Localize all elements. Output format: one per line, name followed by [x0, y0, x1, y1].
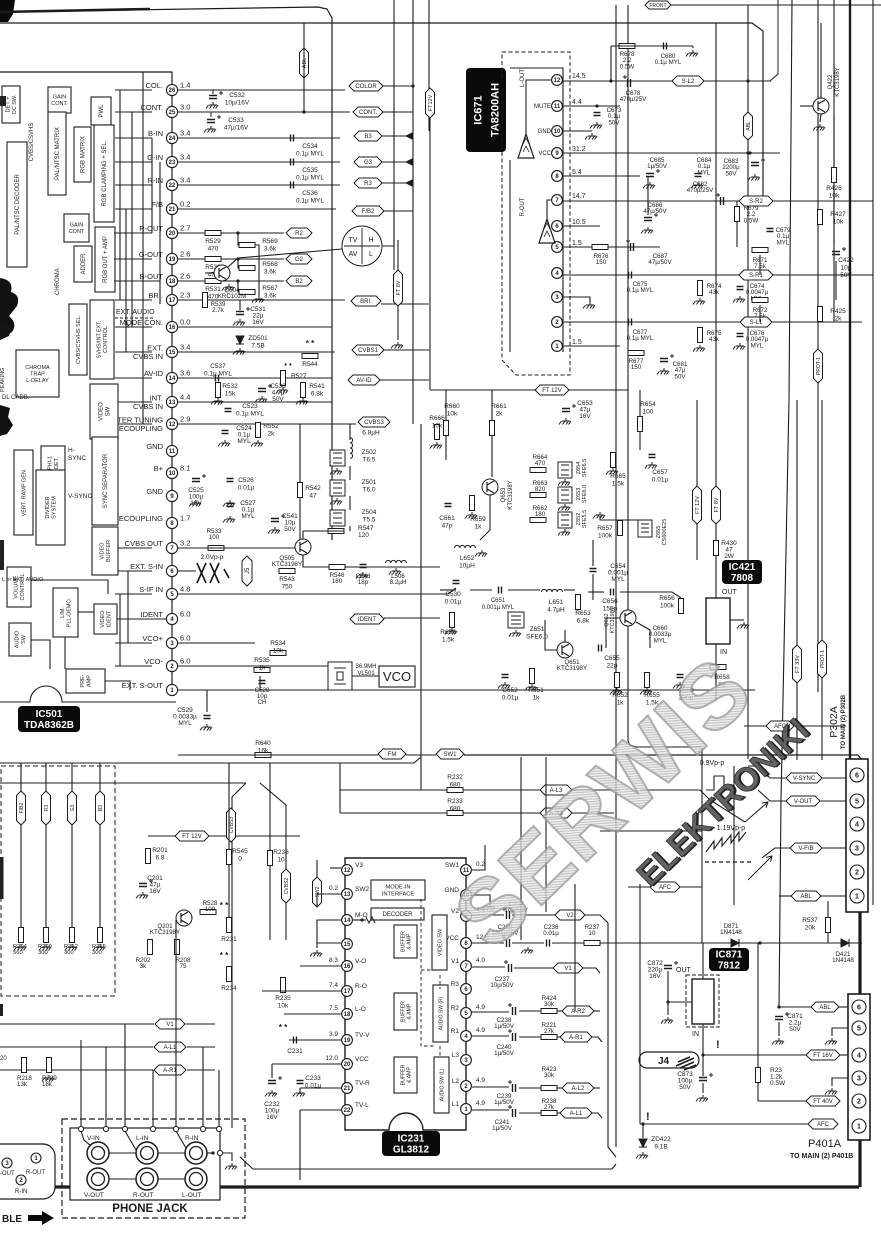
- net label A-R1 bl: [154, 1065, 186, 1075]
- wire IC871 in dn: [702, 1024, 704, 1055]
- zener ZD422: [639, 1139, 647, 1147]
- ground P401 pin3: [825, 1088, 837, 1095]
- resistor R202: [148, 940, 153, 955]
- wire left col h: [127, 571, 129, 643]
- block AUDIO SW: [9, 623, 31, 656]
- wire lower bus 783: [0, 782, 246, 784]
- svg-text:16k: 16k: [258, 748, 269, 755]
- wire bottom return bend: [612, 1164, 616, 1169]
- wire Z cluster: [349, 424, 351, 440]
- svg-text:V-SYNC: V-SYNC: [793, 776, 816, 782]
- wire pin20 stub: [272, 1063, 341, 1065]
- connector P302A box: [846, 759, 868, 912]
- resistor R535: [254, 668, 270, 673]
- block DIVIDER SYSTEM: [36, 470, 65, 545]
- svg-text:0.01µ: 0.01µ: [543, 930, 559, 937]
- wire C872 gnd stub: [667, 1002, 669, 1015]
- dashed box bottom-left: [1, 766, 115, 996]
- resistor R221: [541, 1035, 557, 1040]
- svg-text:SW: SW: [106, 406, 112, 416]
- svg-text:SYSTEM: SYSTEM: [52, 496, 58, 519]
- wire bottom return: [253, 1168, 612, 1170]
- IC501 pin 18: [166, 275, 177, 286]
- resistor R545: [227, 850, 232, 865]
- svg-text:1.4: 1.4: [180, 81, 190, 90]
- svg-text:SFE6.5: SFE6.5: [582, 459, 588, 477]
- switch TV/AV: [342, 226, 382, 266]
- wire pin14 link: [353, 919, 366, 921]
- net label V1 bl: [155, 1019, 185, 1029]
- transistor Q504: [214, 265, 230, 281]
- svg-text:1.5k: 1.5k: [442, 637, 455, 644]
- svg-text:Z501: Z501: [362, 479, 377, 486]
- block VERT. RAMP GEN.: [14, 450, 33, 535]
- svg-text:PHONE JACK: PHONE JACK: [112, 1203, 188, 1215]
- svg-text:B3: B3: [98, 805, 104, 811]
- wire pin 15 left stub: [115, 351, 152, 353]
- regulator IC871 body: [692, 979, 714, 1024]
- wire bus x628: [627, 5, 629, 741]
- svg-text:19: 19: [169, 257, 176, 263]
- svg-text:V-F/B: V-F/B: [798, 846, 813, 852]
- IC501 pin 17: [166, 294, 177, 305]
- wire FT12V mid row2: [569, 389, 628, 391]
- net label ABL p401: [811, 1002, 839, 1012]
- wire pin21 stub: [300, 1087, 341, 1089]
- svg-text:R653: R653: [575, 610, 591, 617]
- ground R665: [606, 468, 618, 475]
- svg-text:470µ/25V: 470µ/25V: [620, 96, 647, 103]
- svg-text:MYL: MYL: [241, 513, 255, 520]
- ground R674: [693, 298, 705, 305]
- wire bus763 bend: [414, 757, 421, 763]
- resistor R234: [227, 967, 232, 982]
- wire Q505 emitter: [303, 555, 329, 567]
- svg-text:47µ/16V: 47µ/16V: [224, 125, 249, 132]
- scan artifact top-left corner blob: [0, 0, 15, 22]
- net label PROT-1 mid: [818, 640, 827, 678]
- svg-text:TRAP: TRAP: [30, 371, 45, 377]
- svg-text:R547: R547: [358, 525, 374, 532]
- wire pin 12 left stub: [115, 423, 152, 425]
- svg-text:R529: R529: [205, 238, 221, 245]
- svg-text:L-OUT: L-OUT: [520, 69, 526, 87]
- net label BRI.: [351, 296, 381, 306]
- svg-text:BLE: BLE: [2, 1214, 22, 1225]
- wire pin 19 row: [178, 258, 284, 260]
- svg-text:TDA8362B: TDA8362B: [24, 720, 74, 731]
- svg-text:TV-V: TV-V: [355, 1032, 370, 1039]
- IC501 pin 12: [166, 418, 177, 429]
- ground P401 pin5: [825, 1038, 837, 1045]
- net label FT 12V mid: [535, 385, 569, 395]
- svg-text:680: 680: [450, 782, 461, 789]
- wire ABL up: [303, 23, 305, 48]
- svg-text:TV: TV: [349, 237, 358, 244]
- svg-text:2k: 2k: [496, 411, 504, 418]
- ground R532: [211, 398, 223, 405]
- wire Q422 base: [800, 105, 813, 107]
- IC231 pin 1R: [461, 1104, 472, 1115]
- ground C652: [498, 682, 510, 689]
- wire bus x850 thick: [849, 0, 851, 759]
- IC231 pin 2R: [461, 1081, 472, 1092]
- svg-text:VIDEO: VIDEO: [100, 610, 106, 628]
- wire pin 20 row: [178, 232, 284, 234]
- svg-text:0.1µ MYL: 0.1µ MYL: [655, 59, 682, 66]
- IC IC871 7812 label: [709, 948, 749, 971]
- svg-text:CVBS IN: CVBS IN: [133, 402, 163, 411]
- svg-text:TA8200AH: TA8200AH: [489, 83, 501, 137]
- wire pin2 row2: [519, 1087, 541, 1089]
- ground R651: [525, 684, 537, 691]
- resistor R423: [541, 1086, 557, 1091]
- ground C653: [559, 418, 571, 425]
- jack R-IN: [185, 1142, 207, 1164]
- block VOLUME CONTROL: [7, 567, 31, 607]
- svg-text:BUFFER: BUFFER: [400, 931, 406, 952]
- wire F/B2 up: [20, 763, 22, 791]
- IC671 pin 3: [552, 292, 563, 303]
- svg-text:R534: R534: [270, 640, 286, 647]
- wire pin5 row: [472, 1011, 509, 1013]
- net label J5: [242, 556, 252, 586]
- wire block link 2: [114, 258, 152, 260]
- IC IC671 TA8200AH label: [466, 68, 506, 152]
- jack pin 81: [78, 1126, 83, 1131]
- net label G3: [354, 157, 382, 167]
- resistor R528: [200, 910, 216, 915]
- svg-text:6: 6: [857, 1005, 861, 1012]
- IC501 pin 23: [166, 156, 177, 167]
- svg-text:R425: R425: [830, 308, 846, 315]
- net label V-F/B: [790, 843, 822, 853]
- wire audio out: [588, 591, 604, 593]
- resistor R675: [698, 328, 703, 343]
- svg-text:IC671: IC671: [472, 95, 484, 124]
- svg-text:IDENT: IDENT: [107, 610, 113, 627]
- svg-text:50V: 50V: [608, 119, 620, 126]
- box phone jack body: [70, 1128, 220, 1200]
- wire R567 link: [238, 281, 239, 292]
- svg-text:1µ/50V: 1µ/50V: [647, 163, 668, 170]
- svg-text:1µ/50V: 1µ/50V: [494, 1050, 515, 1057]
- wire FT12V bl row: [148, 835, 176, 837]
- net label AFC p302: [766, 721, 794, 731]
- svg-text:B2: B2: [295, 279, 303, 285]
- resistor R567: [239, 290, 255, 295]
- svg-text:R545: R545: [232, 848, 248, 855]
- svg-text:10: 10: [277, 857, 285, 864]
- svg-text:DET.: DET.: [54, 457, 60, 469]
- ground pin10: [585, 133, 597, 140]
- capacitor C872: [664, 966, 672, 969]
- net label G3 vert: [68, 791, 77, 825]
- resistor R552: [256, 423, 261, 438]
- svg-text:IC231: IC231: [398, 1134, 425, 1145]
- ground L506: [389, 568, 401, 575]
- wire pin10 gnd: [563, 130, 592, 132]
- wire Q422 up: [820, 23, 822, 98]
- svg-text:R544: R544: [302, 361, 318, 368]
- wire Q651 coll: [564, 630, 566, 642]
- net label V2: [555, 910, 585, 920]
- wire bus x734: [733, 766, 735, 905]
- resistor R658: [710, 665, 726, 670]
- wire pin 17 row: [178, 299, 345, 301]
- svg-text:SFE6.0: SFE6.0: [582, 485, 588, 503]
- svg-text:Z504: Z504: [362, 509, 377, 516]
- capacitor C422: [832, 252, 840, 255]
- watermark ELEKTRONIKI: [629, 710, 818, 894]
- wire pin 2 left stub: [115, 665, 152, 667]
- wire left bus c: [142, 72, 144, 424]
- svg-text:15: 15: [344, 942, 351, 948]
- net label CVBS2 vert: [282, 869, 291, 903]
- P302A pin 4: [850, 817, 864, 831]
- svg-text:MYL: MYL: [178, 720, 192, 727]
- svg-text:B-IN: B-IN: [148, 129, 163, 138]
- wire ZD422 up: [642, 1124, 644, 1138]
- wire jack feed x203: [202, 1047, 204, 1126]
- resistor R656: [679, 599, 684, 614]
- svg-text:4.9: 4.9: [476, 1027, 485, 1034]
- svg-text:ABL: ABL: [819, 1005, 831, 1011]
- svg-text:VIDEO: VIDEO: [100, 542, 106, 560]
- ground Q504: [222, 284, 234, 291]
- wire R430 up: [715, 23, 717, 540]
- wire block link 1: [114, 232, 143, 234]
- svg-text:R657: R657: [597, 525, 613, 532]
- ground R239: [42, 1075, 54, 1082]
- wire pin 22 row: [178, 184, 340, 186]
- block RGB MATRIX: [74, 127, 91, 182]
- svg-text:F/B: F/B: [151, 200, 163, 209]
- block VIDEO SW upper: [90, 384, 118, 439]
- wire pin 26 left stub: [115, 89, 152, 91]
- svg-text:ABL: ABL: [800, 894, 812, 900]
- wire P401 pin5 gnd: [832, 1028, 848, 1036]
- svg-text:1: 1: [855, 894, 859, 901]
- capacitor C543: [360, 565, 367, 568]
- svg-text:0.1µ MYL: 0.1µ MYL: [236, 411, 264, 418]
- ground R567 common: [252, 296, 264, 303]
- wire x340 drop: [339, 763, 341, 813]
- svg-text:2.9: 2.9: [180, 415, 190, 424]
- capacitor C231: [294, 1037, 297, 1044]
- svg-text:GAIN: GAIN: [70, 223, 83, 229]
- ground C543: [356, 572, 368, 579]
- svg-text:2W: 2W: [724, 553, 735, 560]
- svg-text:13: 13: [344, 892, 351, 898]
- connector J4: [639, 1052, 699, 1068]
- capacitor C680: [664, 43, 667, 50]
- ground IC421: [737, 622, 749, 629]
- svg-text:SYNC: SYNC: [68, 455, 86, 462]
- resistor R236: [268, 851, 273, 866]
- wire R671 drop: [759, 255, 761, 275]
- filter Z651: [508, 612, 524, 628]
- diode D421: [841, 939, 849, 947]
- wire FT12V bl row2: [209, 835, 300, 837]
- net label FT8V: [394, 270, 403, 306]
- wire FT12V vcol up: [696, 400, 698, 486]
- svg-text:!: !: [716, 1039, 720, 1051]
- svg-text:OUT: OUT: [676, 967, 692, 974]
- svg-text:IC421: IC421: [729, 562, 756, 573]
- svg-text:2.7: 2.7: [180, 224, 190, 233]
- IC231 pin 12: [342, 865, 353, 876]
- svg-text:SW1: SW1: [443, 752, 457, 758]
- capacitor C234: [507, 911, 510, 919]
- wire A-L1 wrap: [592, 1113, 602, 1118]
- svg-text:BUFFER: BUFFER: [400, 1001, 406, 1022]
- wire pin 23 left stub: [115, 161, 152, 163]
- net label B3: [354, 131, 382, 141]
- capacitor C531: [236, 312, 244, 315]
- svg-text:T6.0: T6.0: [362, 487, 375, 494]
- waveform squiggle S-IN: [197, 563, 229, 583]
- junction J4: [701, 1053, 704, 1056]
- wire R3 to bus: [382, 182, 413, 184]
- svg-text:C657: C657: [652, 469, 668, 476]
- svg-text:BRI.: BRI.: [360, 299, 372, 305]
- resistor R209: [44, 928, 49, 943]
- svg-text:R535: R535: [254, 657, 270, 664]
- net label R2: [286, 228, 312, 238]
- junction ABL-CONT: [302, 110, 305, 113]
- svg-text:A-R1: A-R1: [569, 1035, 583, 1041]
- wire bus x780: [779, 0, 792, 1007]
- capacitor C654: [590, 569, 597, 572]
- IC501 pin 25: [166, 106, 177, 117]
- resistor R659: [470, 496, 475, 511]
- P401A pin 3: [852, 1071, 866, 1085]
- block VIDEO SW 231: [432, 915, 447, 970]
- svg-text:0.1µ MYL: 0.1µ MYL: [296, 198, 324, 205]
- wire LIM down: [64, 637, 66, 669]
- ground Z653: [558, 504, 570, 511]
- capacitor C871: [775, 1017, 783, 1020]
- svg-text:!: !: [646, 1111, 650, 1123]
- resistor R424: [541, 1009, 557, 1014]
- P302A pin 5: [850, 794, 864, 808]
- capacitor C678: [628, 79, 631, 87]
- svg-text:0.1µ MYL: 0.1µ MYL: [204, 371, 232, 378]
- transistor Q422: [813, 98, 829, 114]
- svg-text:R3: R3: [364, 181, 372, 187]
- wire CONT. to bus: [383, 111, 413, 113]
- svg-text:820: 820: [535, 486, 546, 493]
- scan artifact blob left 3: [0, 405, 13, 436]
- svg-text:8.3: 8.3: [329, 957, 338, 964]
- svg-text:TV-R: TV-R: [355, 1080, 370, 1087]
- capacitor C236: [547, 940, 550, 947]
- svg-text:1k: 1k: [475, 524, 483, 531]
- net label G2: [286, 254, 312, 264]
- ground R655: [640, 688, 652, 695]
- wire pin 14 left stub: [115, 377, 152, 379]
- wire vertical bus x394: [393, 0, 395, 270]
- svg-text:* *: * *: [220, 901, 229, 910]
- block PAL/NTSC DECODER: [7, 142, 27, 267]
- junction R569: [236, 231, 239, 234]
- svg-text:S-IF IN: S-IF IN: [139, 585, 163, 594]
- P302A pin 6: [850, 768, 864, 782]
- svg-text:CVBS2: CVBS2: [284, 878, 290, 895]
- IC671 pin 10: [552, 126, 563, 137]
- net label FT12V vcol: [693, 486, 702, 524]
- svg-text:Z651: Z651: [530, 626, 545, 633]
- capacitor C241: [513, 1109, 516, 1117]
- IC231 pin 13: [342, 889, 353, 900]
- wire R542 up: [299, 424, 301, 483]
- svg-text:R537: R537: [802, 917, 818, 924]
- wire BRI ext: [381, 303, 429, 305]
- svg-text:V-SYNC: V-SYNC: [68, 493, 93, 500]
- svg-text:VCC: VCC: [355, 1056, 369, 1063]
- wire AFC row P401: [640, 1123, 808, 1125]
- resistor R640: [255, 753, 271, 758]
- wire V2 wrap: [585, 915, 616, 1157]
- svg-text:0.5W: 0.5W: [620, 63, 635, 70]
- resistor R662: [530, 518, 546, 523]
- ground C872: [661, 1017, 673, 1024]
- svg-text:10k: 10k: [278, 1003, 289, 1010]
- svg-text:2.6: 2.6: [180, 250, 190, 259]
- svg-text:L-OUT: L-OUT: [182, 1192, 202, 1199]
- op-amp R-OUT triangle: [539, 219, 555, 243]
- net label ABL top: [300, 48, 309, 78]
- resistor R547: [328, 529, 344, 534]
- wire pin 26 row: [178, 89, 345, 91]
- junction mute: [595, 104, 598, 107]
- svg-text:50V: 50V: [725, 170, 737, 177]
- wire pin 21 row: [178, 208, 336, 210]
- wire ABL drop: [303, 48, 305, 112]
- wire SW2 dn: [316, 894, 318, 907]
- svg-text:L-DELAY: L-DELAY: [26, 378, 49, 384]
- svg-text:G2: G2: [295, 257, 304, 263]
- svg-text:7808: 7808: [731, 573, 754, 584]
- ground L652 right: [475, 550, 487, 557]
- wire pin6 stub r: [178, 570, 196, 572]
- svg-text:R666: R666: [429, 415, 445, 422]
- svg-text:* *: * *: [284, 363, 292, 370]
- wire pin 25 row: [178, 111, 350, 113]
- wire IDENT ext: [384, 617, 440, 619]
- net label FT12V top: [426, 88, 435, 118]
- filter Z654: [558, 462, 572, 478]
- capacitor C682: [721, 197, 724, 205]
- IC231 pin 17: [342, 986, 353, 997]
- svg-text:16V: 16V: [579, 413, 591, 420]
- wire pin7 row: [563, 200, 873, 202]
- capacitor C527: [227, 504, 234, 507]
- wire FM row: [178, 754, 378, 756]
- wire pin 6 left stub: [115, 570, 152, 572]
- svg-text:IC871: IC871: [716, 950, 743, 961]
- wire vertical bus x429: [428, 0, 430, 131]
- wire pin8 row2: [512, 942, 544, 944]
- IC231 pin 6R: [461, 984, 472, 995]
- wire pin 19 left stub: [115, 258, 152, 260]
- capacitor C687: [631, 243, 634, 251]
- wire pin 4 left stub: [115, 618, 152, 620]
- IC501 pin 21: [166, 203, 177, 214]
- svg-text:A-R2: A-R2: [571, 1009, 585, 1015]
- svg-text:R236: R236: [273, 849, 289, 856]
